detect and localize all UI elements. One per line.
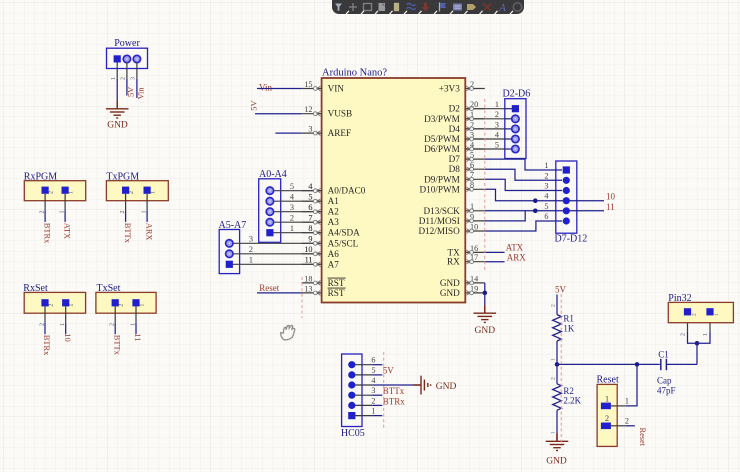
pin D11/MOSI 9 (right) [419, 212, 485, 226]
pin D6/PWM 4 (right) [424, 140, 485, 154]
wire A0-A4 pin3 to Arduino [270, 211, 322, 213]
wire D7 to pin1 [485, 159, 562, 170]
toolbar icon circle [513, 3, 521, 11]
svg-text:2: 2 [120, 211, 126, 214]
wire HC05 pin 5 [372, 374, 382, 376]
pin 6 of HC05 [352, 364, 372, 366]
svg-text:1: 1 [60, 323, 66, 326]
wire TxPGM pin2 pin [125, 194, 127, 210]
wire Power pin3 (Vin) [136, 79, 138, 98]
svg-text:Vin: Vin [259, 82, 272, 92]
svg-text:A0-A4: A0-A4 [259, 169, 287, 180]
pin 1 pad of TxSet [132, 299, 139, 306]
wire TxSet pin1 wire [135, 323, 137, 334]
svg-text:ATX: ATX [506, 243, 524, 253]
wire D3 into connector [505, 118, 513, 120]
pin 3 of Power [136, 63, 138, 79]
svg-text:11: 11 [133, 333, 142, 341]
wire D13/SCK [485, 210, 525, 212]
wire D12 to pin6 [485, 221, 562, 231]
wire Power pin2 (5V) [126, 79, 128, 96]
svg-text:A1: A1 [328, 196, 340, 206]
svg-text:1: 1 [551, 358, 557, 361]
guide line (red dashed) [484, 99, 486, 272]
svg-text:1: 1 [59, 211, 65, 214]
junction at Reset wire [635, 362, 640, 367]
wire GND pin14 down [484, 283, 486, 293]
gnd lead [484, 305, 486, 313]
pin GND 19 (right) [440, 284, 485, 298]
svg-text:10: 10 [63, 333, 72, 341]
wire D10 to pin4 and net 10 [485, 189, 604, 200]
pin TX 16 (right) [448, 244, 485, 258]
wire Vin to VIN pin [257, 88, 302, 90]
svg-text:2: 2 [680, 333, 686, 336]
pin 1 pad of TxPGM [144, 187, 151, 194]
wire 5V to VUSB pin [255, 113, 302, 115]
wire HC05 pin 6 [372, 364, 382, 366]
ground below Power [106, 101, 129, 118]
svg-text:A7: A7 [328, 259, 340, 269]
svg-text:1: 1 [605, 394, 609, 403]
svg-text:RxPGM: RxPGM [24, 171, 57, 182]
svg-text:15: 15 [304, 80, 312, 89]
pin A2 6 (left) [302, 203, 340, 217]
svg-text:2: 2 [371, 396, 375, 405]
svg-text:D9/PWM: D9/PWM [424, 174, 460, 184]
pin D9/PWM 7 (right) [424, 171, 485, 185]
svg-text:D7: D7 [449, 154, 461, 164]
svg-text:1: 1 [69, 191, 75, 194]
svg-text:4: 4 [544, 192, 548, 201]
svg-text:1: 1 [249, 256, 253, 265]
wire RxPGM pin1 wire [64, 210, 66, 222]
wire Pin32 pins join [688, 332, 711, 344]
wire A5-A7 pin1 to Arduino [229, 263, 321, 265]
pin D2 20 (right) [449, 100, 485, 114]
pin 1 pad of RxSet [62, 299, 69, 306]
pad of D7-D12 [563, 207, 570, 214]
svg-text:11: 11 [606, 202, 615, 212]
wire RX [485, 261, 505, 263]
pin 2 of Pin32 [687, 315, 689, 331]
svg-text:BTTx: BTTx [383, 386, 405, 396]
pad of D7-D12 [563, 187, 570, 194]
svg-text:D3/PWM: D3/PWM [424, 114, 460, 124]
connector D7-D12 [556, 161, 577, 233]
svg-text:A6: A6 [328, 249, 340, 259]
wire A0-A4 pin5 to Arduino [270, 190, 322, 192]
pad of D2-D6 [512, 125, 519, 132]
pin VIN 15 (left) [302, 80, 345, 94]
toolbar icon tag [467, 4, 476, 10]
toolbar icon wires [407, 4, 416, 10]
wire RxSet pin1 pin [65, 306, 67, 322]
wire D8 to pin2 [485, 169, 562, 180]
svg-text:2: 2 [49, 191, 55, 194]
svg-text:Vin: Vin [137, 87, 146, 100]
resistor R1 [553, 315, 562, 341]
wire RxSet pin1 wire [65, 323, 67, 334]
pin +3V3 2 (right) [439, 80, 485, 94]
svg-text:5V: 5V [127, 87, 136, 97]
ground bottom right [546, 433, 569, 450]
pin clip glyphs [313, 86, 320, 91]
pin 1 pad of D2-D6 [512, 105, 519, 112]
svg-text:Pin32: Pin32 [668, 293, 691, 304]
toolbar icon move cross [349, 3, 357, 11]
svg-text:5V: 5V [555, 285, 567, 295]
svg-text:A2: A2 [328, 207, 340, 217]
svg-text:7: 7 [308, 214, 312, 223]
svg-text:3: 3 [495, 120, 499, 129]
toolbar icon sheet [379, 3, 386, 11]
wire D11 to pin5 and net 11 [485, 211, 604, 221]
wire D9 to pin3 [485, 179, 562, 190]
pin 1 of HC05 [352, 415, 372, 417]
svg-text:D7-D12: D7-D12 [555, 234, 588, 245]
svg-text:5: 5 [495, 140, 499, 149]
svg-text:R1: R1 [563, 314, 574, 324]
svg-text:Cap: Cap [657, 376, 672, 386]
svg-text:RST: RST [328, 278, 345, 288]
pin 2 of HC05 [352, 404, 372, 406]
svg-text:A4/SDA: A4/SDA [328, 228, 361, 238]
svg-text:BTRx: BTRx [42, 223, 51, 244]
svg-text:2: 2 [48, 304, 54, 307]
pad of A0-A4 [266, 198, 273, 205]
toolbar icon net label [453, 4, 462, 11]
svg-text:Reset: Reset [259, 283, 279, 293]
wire D4 into connector [505, 128, 513, 130]
wire RxSet pin2 pin [44, 306, 46, 322]
wire HC05 pin 1 [372, 415, 382, 417]
wire A0-A4 pin4 to Arduino [270, 200, 322, 202]
svg-text:1: 1 [139, 304, 145, 307]
svg-text:BTRx: BTRx [383, 396, 406, 406]
pin run D4 [465, 128, 505, 130]
gnd lead [116, 101, 118, 109]
wire HC05 pin 2 [372, 404, 382, 406]
pin GND 14 (right) [440, 274, 485, 288]
pin 2 pad of Power [123, 55, 130, 62]
svg-text:RST: RST [328, 288, 345, 298]
pad of D7-D12 [563, 197, 570, 204]
svg-text:D5/PWM: D5/PWM [424, 134, 460, 144]
connector A5-A7 [219, 230, 239, 274]
pin A1 5 (left) [302, 193, 340, 207]
guide line (red dashed) [560, 294, 562, 446]
svg-text:5V: 5V [383, 365, 395, 375]
svg-text:1: 1 [69, 304, 75, 307]
pin 4 of HC05 [352, 384, 372, 386]
svg-text:3: 3 [290, 203, 294, 212]
svg-text:D6/PWM: D6/PWM [424, 144, 460, 154]
svg-text:1: 1 [714, 313, 720, 316]
toolbar icon flag [439, 3, 441, 12]
svg-text:2: 2 [110, 323, 116, 326]
wire R2 to ground [556, 410, 558, 433]
svg-text:Reset: Reset [638, 428, 647, 447]
svg-text:2: 2 [625, 416, 629, 425]
wire RxSet pin2 wire [44, 323, 46, 334]
svg-text:GND: GND [440, 278, 460, 288]
svg-text:R2: R2 [563, 386, 574, 396]
svg-text:12: 12 [304, 105, 312, 114]
svg-text:4: 4 [495, 130, 499, 139]
capacitor C1 [661, 359, 667, 370]
svg-text:2: 2 [39, 323, 45, 326]
svg-text:5: 5 [290, 182, 294, 191]
svg-text:TxPGM: TxPGM [106, 171, 139, 182]
cursor (hand) [281, 325, 295, 339]
svg-text:A5-A7: A5-A7 [219, 220, 247, 231]
pin D7 5 (right) [449, 151, 485, 165]
pin 3 pad of Power [133, 55, 140, 62]
svg-text:2: 2 [495, 110, 499, 119]
wire Reset pin2 [626, 425, 635, 427]
pin run D2 [465, 108, 505, 110]
svg-text:VIN: VIN [328, 84, 345, 94]
svg-text:3: 3 [544, 182, 548, 191]
svg-text:HC05: HC05 [341, 428, 365, 439]
pin 5 of HC05 [352, 374, 372, 376]
pad of A0-A4 [266, 208, 273, 215]
svg-text:3: 3 [371, 386, 375, 395]
svg-text:2.2K: 2.2K [563, 396, 581, 406]
connector Power [107, 48, 148, 68]
svg-text:2: 2 [121, 77, 127, 80]
wire A0-A4 pin2 to Arduino [270, 221, 322, 223]
connector HC05 [342, 354, 362, 427]
svg-text:ATX: ATX [62, 223, 71, 239]
svg-text:GND: GND [436, 382, 457, 392]
pin D13/SCK 1 (right) [424, 202, 485, 216]
svg-text:BTRx: BTRx [42, 335, 51, 356]
pin A5/SCL 9 (left) [302, 235, 359, 249]
pad of A0-A4 [266, 219, 273, 226]
wire stub AREF [275, 132, 301, 134]
wire TxSet pin2 pin [114, 306, 116, 322]
pin 2 pad of RxPGM [42, 187, 49, 194]
pin 2 of Power [126, 63, 128, 79]
pin 1 pad of HC05 [348, 412, 355, 419]
toolbar [332, 0, 524, 14]
wire TxPGM pin2 wire [125, 210, 127, 222]
svg-text:6: 6 [371, 356, 375, 365]
wire A0-A4 pin1 to Arduino [270, 232, 322, 234]
wire up to Pin32 [696, 343, 698, 364]
svg-text:2: 2 [544, 171, 548, 180]
connector TxSet [96, 292, 156, 313]
svg-text:D10/PWM: D10/PWM [419, 184, 459, 194]
pad of HC05 [348, 392, 355, 399]
toolbar icon red arrow [422, 3, 430, 12]
svg-text:10: 10 [606, 192, 616, 202]
svg-text:GND: GND [440, 288, 460, 298]
junction Pin32 [695, 341, 700, 346]
svg-text:ARX: ARX [144, 223, 153, 241]
svg-text:RX: RX [447, 257, 460, 267]
wire RxPGM pin2 wire [44, 210, 46, 222]
pin 2 pad of Pin32 [684, 308, 691, 315]
svg-text:2: 2 [249, 245, 253, 254]
svg-text:1: 1 [625, 396, 629, 405]
junction GND [483, 291, 488, 296]
svg-text:+3V3: +3V3 [439, 84, 460, 94]
svg-text:18: 18 [304, 274, 312, 283]
svg-text:4: 4 [290, 193, 294, 202]
svg-text:6: 6 [308, 203, 312, 212]
svg-text:VUSB: VUSB [328, 109, 353, 119]
pad of D2-D6 [512, 145, 519, 152]
pin 1 pad of Pin32 [706, 308, 713, 315]
svg-text:3: 3 [308, 125, 312, 134]
ground (rotated) at HC05 pin 4 [413, 376, 431, 395]
svg-text:1: 1 [141, 211, 147, 214]
svg-text:1: 1 [703, 333, 709, 336]
wire HC05 pin 3 [372, 394, 382, 396]
wire Reset to RST pin 13 [257, 292, 302, 294]
pin D4 2 (right) [449, 120, 485, 134]
svg-text:C1: C1 [658, 350, 669, 360]
svg-text:TxSet: TxSet [97, 283, 121, 294]
svg-text:BTTx: BTTx [123, 223, 132, 244]
svg-text:1: 1 [495, 100, 499, 109]
pin A0/DAC0 4 (left) [302, 182, 366, 196]
pin 1 pad of Reset [601, 403, 611, 410]
pad of A5-A7 [226, 240, 233, 247]
pin D3/PWM 1 (right) [424, 110, 485, 124]
connector Pin32 [668, 302, 733, 322]
wire TxPGM pin1 wire [146, 210, 148, 222]
svg-text:D11/MOSI: D11/MOSI [419, 216, 460, 226]
wire to C1 [557, 363, 660, 365]
toolbar icon rectangle [364, 4, 372, 11]
svg-text:6: 6 [544, 212, 548, 221]
connector Reset [597, 384, 617, 446]
connector TxPGM [106, 181, 168, 201]
gnd lead [556, 433, 558, 441]
pin 1 of Pin32 [709, 315, 711, 331]
svg-text:GND: GND [107, 121, 128, 131]
pin 1 pad of RxPGM [62, 187, 69, 194]
svg-text:D2: D2 [449, 104, 461, 114]
junction at R1/R2 [555, 362, 560, 367]
pin D10/PWM 8 (right) [419, 181, 484, 195]
pin 2 pad of Reset [601, 423, 611, 430]
IC U1 Arduino Nano body [322, 78, 466, 303]
svg-text:3: 3 [131, 77, 137, 80]
pin 1 pad of A0-A4 [266, 229, 273, 236]
pin run D6 [465, 148, 505, 150]
svg-text:2: 2 [551, 304, 557, 307]
wire 5V to R1 [556, 295, 558, 315]
pin A7 11 (left) [302, 256, 340, 270]
resistor R2 [553, 384, 562, 410]
svg-text:2: 2 [691, 313, 697, 316]
wire TxPGM pin1 pin [146, 194, 148, 210]
svg-text:5: 5 [544, 202, 548, 211]
svg-text:13: 13 [304, 284, 312, 293]
pin 1 of Power [116, 63, 118, 79]
guide line (red dashed) [301, 277, 303, 318]
svg-text:GND: GND [546, 457, 567, 467]
svg-text:1: 1 [544, 161, 548, 170]
pad of HC05 [348, 402, 355, 409]
wire A5-A7 pin2 to Arduino [229, 253, 321, 255]
wire TX [485, 251, 505, 253]
pin D8 6 (right) [449, 161, 485, 175]
svg-text:3: 3 [249, 235, 253, 244]
wire A5-A7 pin3 to Arduino [229, 242, 321, 244]
pin 1 of Reset [611, 405, 626, 407]
svg-text:2: 2 [551, 377, 557, 380]
svg-text:1K: 1K [563, 324, 575, 334]
pin 2 pad of RxSet [41, 299, 48, 306]
svg-text:9: 9 [308, 235, 312, 244]
wire TxSet pin1 pin [135, 306, 137, 322]
pad of A0-A4 [266, 187, 273, 194]
pin 1 pad of Power [114, 55, 121, 62]
connector A0-A4 [259, 179, 281, 243]
pad of D2-D6 [512, 135, 519, 142]
wire D6 into connector [505, 148, 513, 150]
pin 2 of Reset [611, 425, 626, 427]
toolbar icon part body [394, 3, 399, 11]
junction on net 11 [533, 209, 538, 214]
svg-text:1: 1 [111, 77, 117, 80]
svg-text:A0/DAC0: A0/DAC0 [328, 186, 366, 196]
svg-text:47pF: 47pF [657, 386, 676, 396]
svg-text:2: 2 [119, 304, 125, 307]
svg-text:11: 11 [305, 256, 313, 265]
svg-text:1: 1 [290, 224, 294, 233]
toolbar icon red cross [483, 4, 491, 11]
connector RxSet [24, 292, 85, 313]
pin RST 13 (left) [302, 284, 346, 298]
pad of A5-A7 [226, 250, 233, 257]
wire to ground [484, 293, 486, 305]
guide line (red dashed) [383, 352, 385, 428]
svg-text:BTTx: BTTx [112, 335, 121, 356]
pin 3 of HC05 [352, 394, 372, 396]
pin A3 7 (left) [302, 214, 340, 228]
pin D5/PWM 3 (right) [424, 130, 485, 144]
junction on net 10 [533, 198, 538, 203]
wire D2 into connector [505, 108, 513, 110]
pad of D7-D12 [563, 177, 570, 184]
toolbar icon funnel [335, 4, 342, 11]
svg-text:4: 4 [371, 376, 375, 385]
svg-text:D13/SCK: D13/SCK [424, 206, 461, 216]
svg-text:1: 1 [371, 407, 375, 416]
pin A6 10 (left) [302, 245, 340, 259]
svg-text:8: 8 [308, 224, 312, 233]
svg-text:A5/SCL: A5/SCL [328, 238, 359, 248]
pad of HC05 [348, 381, 355, 388]
connector D2-D6 [505, 99, 526, 159]
svg-text:Reset: Reset [597, 375, 619, 386]
connector RxPGM [24, 181, 85, 201]
pin RX 17 (right) [447, 253, 485, 267]
svg-text:Arduino Nano?: Arduino Nano? [322, 68, 387, 79]
ground below Arduino [474, 305, 497, 322]
svg-text:RxSet: RxSet [23, 283, 48, 294]
svg-text:2: 2 [605, 414, 609, 423]
pin RST 18 (left) [302, 274, 346, 288]
svg-text:5V: 5V [249, 100, 258, 110]
